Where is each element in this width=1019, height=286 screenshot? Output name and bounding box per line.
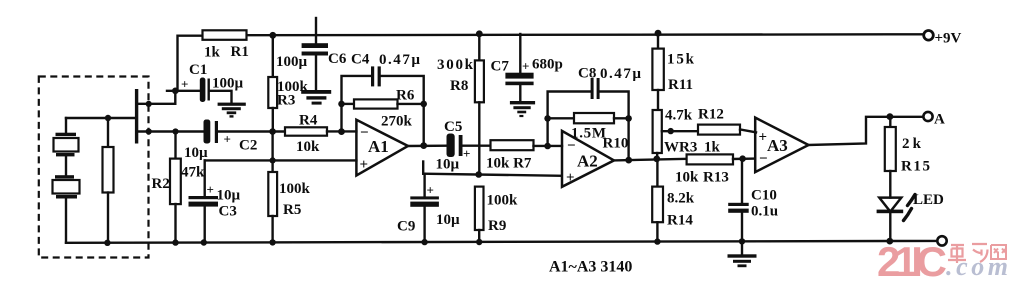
- svg-text:100k: 100k: [279, 181, 311, 197]
- op-amp A2: [562, 131, 614, 187]
- svg-text:100µ: 100µ: [276, 54, 308, 70]
- wire: R7 to A2 inverting input: [534, 143, 563, 150]
- wire: C5 to R7: [463, 144, 491, 146]
- svg-text:A2: A2: [577, 152, 598, 171]
- wire: WR3 wiper to R12: [662, 128, 698, 134]
- svg-text:10k: 10k: [296, 139, 320, 155]
- resistor R2 47k: [152, 132, 206, 243]
- node: output / R15: [887, 113, 894, 120]
- terminal +9V: [924, 31, 962, 47]
- svg-text:+: +: [566, 170, 575, 186]
- svg-text:100µ: 100µ: [212, 76, 244, 92]
- sensor output bar: [135, 89, 138, 144]
- capacitor C9 10u decoupling: [397, 174, 460, 242]
- node: internal bias resistor tap: [105, 115, 111, 121]
- svg-text:WR3: WR3: [664, 140, 697, 156]
- wire: A3 output up to output node: [809, 117, 924, 145]
- wire: top supply rail: [178, 34, 923, 91]
- svg-text:10µ: 10µ: [436, 212, 460, 228]
- wire: bias rail to A2 non-inverting input: [423, 162, 562, 178]
- resistor R7 10k: [486, 140, 534, 171]
- resistor R8 300k: [437, 34, 484, 175]
- svg-text:R13: R13: [703, 170, 729, 186]
- piezo element B1 (upper): [54, 118, 79, 175]
- capacitor C4 0.47u (feedback): [342, 52, 424, 146]
- svg-text:10k R7: 10k R7: [486, 156, 532, 172]
- svg-text:A: A: [934, 112, 945, 128]
- capacitor C2 10u electrolytic: [184, 120, 257, 162]
- svg-text:C6: C6: [328, 51, 347, 67]
- potentiometer WR3 1k: [653, 110, 721, 159]
- resistor R10 1.5M (feedback): [544, 113, 632, 152]
- resistor R11 15k: [652, 34, 694, 110]
- resistor R12 4.7k: [665, 107, 756, 135]
- svg-text:+: +: [522, 59, 529, 74]
- svg-text:0.47µ: 0.47µ: [600, 66, 641, 82]
- svg-text:C10: C10: [751, 188, 777, 204]
- wire: A1 output: [408, 142, 447, 149]
- svg-text:0.47µ: 0.47µ: [379, 52, 420, 68]
- resistor R15 2k: [885, 117, 930, 198]
- capacitor C3 10u decoupling: [189, 160, 241, 242]
- svg-text:R14: R14: [667, 213, 693, 229]
- svg-text:21IC: 21IC: [877, 238, 947, 285]
- svg-text:R11: R11: [668, 77, 693, 93]
- capacitor C7 680p: [491, 34, 563, 101]
- terminal A: [923, 112, 945, 128]
- svg-text:A1: A1: [368, 137, 389, 156]
- svg-text:8.2k: 8.2k: [667, 191, 695, 207]
- resistor (bias, inside sensor): [103, 118, 114, 243]
- svg-text:+: +: [463, 146, 470, 161]
- wire: A2 output to R13: [614, 156, 687, 164]
- wire: sensor upper output stub: [137, 91, 176, 107]
- capacitor C6 100u (rail filter): [276, 18, 347, 90]
- dashed sensor enclosure box: [39, 77, 149, 258]
- capacitor C10 0.1u: [728, 159, 778, 243]
- svg-text:10k: 10k: [675, 170, 699, 186]
- svg-text:10µ: 10µ: [436, 157, 460, 173]
- svg-text:R15: R15: [901, 159, 930, 175]
- svg-text:+: +: [181, 77, 188, 92]
- ground (C6): [301, 90, 331, 105]
- capacitor C5 10u electrolytic: [436, 119, 471, 173]
- ground (C10, below bottom rail): [728, 242, 757, 267]
- svg-text:A1~A3 3140: A1~A3 3140: [549, 259, 632, 276]
- watermark 21IC.com logo: [877, 238, 1008, 285]
- svg-text:C7: C7: [491, 59, 510, 75]
- svg-text:C3: C3: [219, 204, 237, 220]
- capacitor C8 0.47u (feedback): [548, 66, 642, 161]
- svg-text:+: +: [224, 132, 231, 147]
- wire: C2 to R4: [218, 128, 285, 135]
- resistor R6 270k (feedback): [338, 88, 427, 130]
- svg-text:+: +: [427, 183, 434, 198]
- svg-text:300k: 300k: [437, 57, 474, 73]
- wire: bottom ground rail: [66, 241, 937, 243]
- resistor R13 10k: [675, 154, 755, 185]
- resistor R3 100k: [268, 36, 308, 132]
- svg-text:+: +: [759, 130, 768, 146]
- svg-text:C1: C1: [189, 62, 207, 78]
- svg-text:A3: A3: [767, 136, 788, 155]
- svg-text:C5: C5: [444, 119, 462, 135]
- svg-text:LED: LED: [913, 192, 944, 208]
- svg-text:R1: R1: [231, 44, 249, 60]
- svg-text:R8: R8: [450, 78, 468, 94]
- svg-text:1k: 1k: [704, 140, 721, 156]
- wire: bias to A1 non-inverting input: [205, 159, 357, 161]
- svg-text:4.7k: 4.7k: [665, 108, 693, 124]
- svg-text:2k: 2k: [902, 136, 922, 152]
- svg-text:R3: R3: [277, 93, 295, 109]
- terminal (bottom right): [937, 236, 946, 245]
- svg-text:+: +: [360, 157, 369, 173]
- op-amp A1: [356, 120, 408, 176]
- capacitor C1 100u electrolytic: [167, 62, 244, 103]
- svg-text:R2: R2: [152, 176, 170, 192]
- node: rail / R3 column: [269, 32, 276, 39]
- svg-text:+9V: +9V: [935, 31, 962, 47]
- svg-text:10µ: 10µ: [217, 188, 241, 204]
- resistor R1 1k (series in rail): [203, 30, 249, 60]
- wire: sensor lower output to C2: [137, 128, 204, 134]
- svg-text:15k: 15k: [667, 52, 695, 68]
- svg-text:C2: C2: [239, 138, 257, 154]
- wire: R3/R5 divider column: [270, 132, 276, 173]
- resistor R14 8.2k: [652, 159, 695, 243]
- svg-text:C9: C9: [397, 219, 415, 235]
- resistor R9 100k: [475, 187, 518, 244]
- svg-text:R9: R9: [488, 218, 506, 234]
- svg-text:R6: R6: [396, 88, 415, 104]
- svg-text:47k: 47k: [181, 165, 205, 181]
- node: rail / R8 column: [476, 30, 483, 37]
- ground (C7): [510, 101, 535, 117]
- svg-text:680p: 680p: [532, 57, 563, 73]
- svg-text:270k: 270k: [381, 114, 413, 130]
- svg-text:C4: C4: [351, 52, 370, 68]
- resistor R5 100k: [268, 172, 310, 243]
- wire: R4 to A1 inverting input: [327, 128, 356, 135]
- svg-text:10µ: 10µ: [184, 145, 208, 161]
- svg-text:0.1u: 0.1u: [751, 204, 778, 220]
- svg-text:R4: R4: [299, 113, 318, 129]
- node: rail dots: [104, 238, 893, 246]
- resistor R4 10k: [285, 113, 327, 156]
- svg-text:100k: 100k: [487, 193, 519, 209]
- ground (C1): [218, 103, 246, 118]
- op-amp A3: [755, 118, 808, 173]
- svg-text:C8: C8: [578, 66, 596, 82]
- svg-text:1k: 1k: [204, 45, 221, 61]
- svg-text:R10: R10: [603, 136, 629, 152]
- svg-text:+: +: [207, 182, 214, 197]
- svg-text:R5: R5: [283, 202, 301, 218]
- svg-text:R12: R12: [698, 107, 724, 123]
- svg-text:1.5M: 1.5M: [571, 126, 606, 142]
- LED: [877, 192, 944, 242]
- node: rail / R11 column: [655, 30, 662, 37]
- wire: sensor internal top node: [66, 117, 136, 119]
- piezo element B2 (lower): [53, 175, 80, 242]
